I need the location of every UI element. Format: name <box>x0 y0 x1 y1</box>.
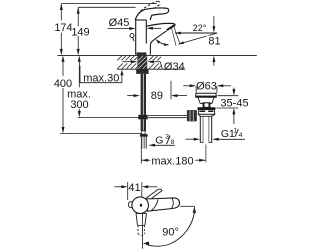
svg-text:90°: 90° <box>162 227 179 239</box>
svg-text:149: 149 <box>71 26 89 38</box>
temp limiter circle <box>130 34 134 38</box>
pop-up rod <box>148 115 188 117</box>
svg-text:8: 8 <box>171 139 175 146</box>
label 149 <box>72 27 90 36</box>
bottom view: 90 deg arc <box>146 213 194 247</box>
supply hoses lower <box>141 119 146 130</box>
dim Ø45 leader <box>107 28 129 30</box>
deck hatching <box>117 56 161 69</box>
label 400 <box>54 77 73 88</box>
dim Ø63 <box>183 85 190 87</box>
ext line x171 <box>170 81 172 100</box>
faucet spout <box>147 23 176 26</box>
svg-text:max.30: max.30 <box>83 73 119 85</box>
ext line hose end y133.5 <box>60 133 142 135</box>
svg-text:G: G <box>155 135 163 147</box>
svg-text:max.180: max.180 <box>151 156 193 168</box>
svg-text:89: 89 <box>151 90 163 102</box>
bottom view: dashed spout below <box>138 225 144 235</box>
svg-text:Ø34: Ø34 <box>164 61 185 73</box>
svg-text:4: 4 <box>239 132 243 139</box>
ext line top 149 <box>78 6 135 8</box>
rod clamp on hoses <box>138 115 147 120</box>
svg-text:35-45: 35-45 <box>220 98 248 110</box>
bottom view: body below <box>136 212 147 214</box>
shank nut <box>136 69 148 74</box>
dim 89 <box>127 95 134 97</box>
dim 174 vertical line <box>60 4 62 49</box>
dim 400 vertical line <box>62 62 64 127</box>
svg-text:81: 81 <box>208 36 220 48</box>
bottom view: rotated lever stub <box>146 189 162 200</box>
drain taper <box>198 114 214 116</box>
dim max180 <box>140 148 142 164</box>
label 35-45 <box>221 98 248 108</box>
dim max300 vertical line <box>78 62 80 111</box>
label 81 <box>207 36 222 45</box>
deck top line <box>58 54 257 56</box>
drain body mid band <box>198 110 214 115</box>
dim max30 bracket <box>79 66 81 83</box>
svg-text:Ø45: Ø45 <box>109 17 130 29</box>
dim 149 vertical line <box>77 7 79 49</box>
label 174 <box>54 21 73 32</box>
aerator swivel arc arrow <box>156 40 168 45</box>
label max300 <box>67 88 92 109</box>
dim 22 deg legs <box>175 32 217 34</box>
bottom view: 90 deg legs <box>180 205 194 207</box>
faucet lever handle <box>135 8 168 20</box>
drain centre ext line <box>205 145 207 163</box>
dim 35-45 <box>218 95 239 97</box>
drain tail pipe <box>200 116 211 142</box>
hose fitting <box>142 131 145 135</box>
svg-text:22°: 22° <box>193 23 207 33</box>
ext line rod level y117 <box>78 116 140 118</box>
valve seat keyhole <box>203 103 210 108</box>
faucet dashed raised lever <box>141 1 161 14</box>
bottom view: cap circle <box>132 197 149 214</box>
deck bottom line (continues right as Ø34 underline) <box>117 68 185 70</box>
label 41 <box>129 182 142 192</box>
aerator axis V lines <box>171 27 176 45</box>
svg-text:174: 174 <box>54 22 72 34</box>
bottom view: 41 dim <box>127 182 129 200</box>
svg-text:Ø63: Ø63 <box>196 81 217 93</box>
svg-text:300: 300 <box>70 99 88 111</box>
leader G1 1/4 <box>219 138 245 140</box>
bottom view: side knob <box>128 202 133 208</box>
connection tube G3/8 <box>141 137 146 149</box>
dim Ø34 arrows <box>122 61 131 63</box>
label max180 <box>151 155 195 165</box>
faucet body <box>136 20 147 55</box>
svg-text:41: 41 <box>128 182 140 194</box>
aerator dark band <box>167 25 175 30</box>
leader G3/8 <box>154 144 175 146</box>
supply hoses <box>141 74 146 115</box>
drain neck trapezoid <box>198 97 214 103</box>
bottom view: lever blade <box>146 198 179 211</box>
dim 81 vertical <box>213 16 215 27</box>
drain body top dark band <box>197 107 215 109</box>
shank seal above deck <box>137 52 147 55</box>
pop-up rod nut <box>187 110 197 121</box>
threaded shank through deck <box>137 55 147 69</box>
ext line top 174 <box>61 3 157 5</box>
drain flange <box>196 93 217 97</box>
